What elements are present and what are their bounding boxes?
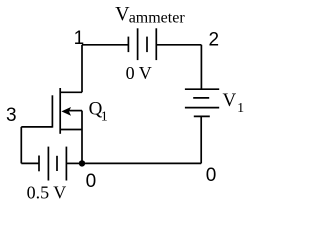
svg-text:1: 1 [74,28,85,49]
svg-text:0 V: 0 V [126,63,152,83]
transistor Q1 drain bar [60,91,82,93]
transistor Q1 channel plate [59,88,61,134]
wire: Q1 substrate/source vertical to junction [81,111,83,164]
wire: gate lead node 3 to Q1 [21,126,52,128]
wire: 0.5V battery to junction [66,162,82,164]
wire: left stub into 0.5V battery [21,162,39,164]
battery V1 [185,89,219,116]
wire: node 2 vertical down to V1 [200,45,202,89]
svg-text:0: 0 [206,165,217,186]
wire: top-left segment node 1 to Vammeter [82,44,128,46]
wire: node 1 vertical to Q1 drain [81,45,83,93]
svg-text:2: 2 [209,30,220,51]
svg-text:1: 1 [237,101,244,116]
svg-text:ammeter: ammeter [129,9,186,26]
transistor Q1 source bar [60,129,82,131]
label V1 [223,90,245,116]
svg-text:3: 3 [6,105,17,126]
svg-text:1: 1 [101,110,108,125]
wire: top-right segment Vammeter to node 2 [156,44,201,46]
transistor Q1 substrate bar with arrow [69,110,82,112]
wire: V1 down to bottom-right corner node 0 [200,116,202,163]
voltage source Vammeter (battery symbol) [128,28,156,60]
svg-text:V: V [223,90,237,111]
svg-text:0.5 V: 0.5 V [27,182,67,202]
wire: bottom rail from junction to right corner [82,162,201,164]
label Q1 [89,99,108,125]
svg-text:0: 0 [86,171,97,192]
transistor Q1 gate plate [51,95,53,127]
label Vammeter [115,3,185,27]
transistor Q1 arrowhead [61,107,71,116]
junction dot node 0 [79,160,85,166]
wire: node 3 vertical [20,127,22,163]
battery 0.5 V [39,147,66,181]
